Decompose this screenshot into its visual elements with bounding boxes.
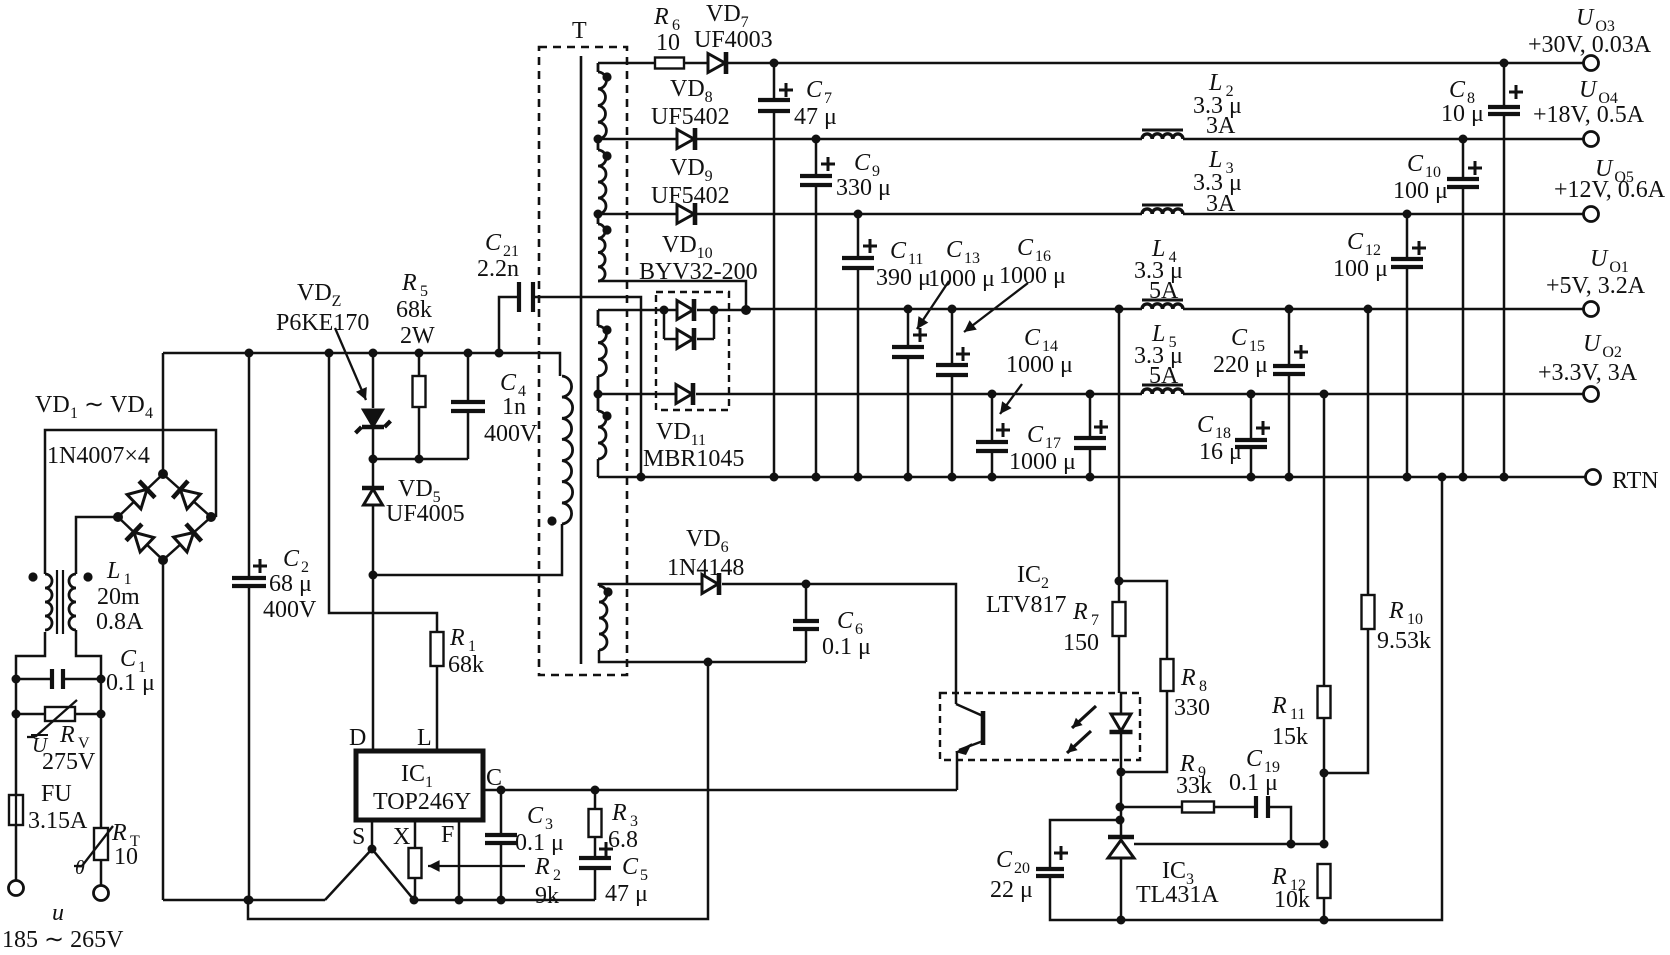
inductor L2 3.3u 3A: [1142, 134, 1183, 139]
capacitor C16 1000u: [951, 309, 954, 477]
svg-text:C: C: [890, 238, 907, 264]
terminal UO4 +18V: [1584, 132, 1599, 147]
svg-text:UF5402: UF5402: [651, 104, 730, 130]
svg-text:θ: θ: [75, 857, 85, 879]
svg-text:5A: 5A: [1149, 363, 1179, 389]
resistor R2 9k on X pin: [409, 848, 422, 878]
svg-text:390 μ: 390 μ: [876, 265, 931, 291]
wire: +12V rail to L3: [697, 213, 1142, 216]
svg-text:33k: 33k: [1176, 773, 1212, 799]
svg-text:C: C: [485, 230, 502, 256]
wire: +30V rail: [728, 62, 1583, 65]
svg-text:330: 330: [1174, 695, 1210, 721]
wire: 18V row from tap: [598, 138, 677, 141]
svg-text:IC: IC: [1017, 562, 1041, 588]
svg-text:20: 20: [1014, 860, 1030, 877]
wire: AC live vertical from left input terminal up to C1/RV node: [16, 632, 45, 881]
node C13 top: [904, 305, 913, 314]
svg-text:10: 10: [114, 844, 138, 870]
svg-text:1000 μ: 1000 μ: [928, 266, 995, 292]
inductor L1 right winding: [69, 574, 76, 630]
svg-text:20m: 20m: [97, 584, 140, 610]
wire: clamp node horizontal: [373, 458, 468, 461]
svg-text:+30V, 0.03A: +30V, 0.03A: [1528, 32, 1652, 58]
svg-text:5A: 5A: [1149, 278, 1179, 304]
wire: RTN rail: [598, 476, 1585, 479]
svg-text:VD: VD: [398, 476, 433, 502]
svg-text:∼: ∼: [84, 392, 104, 418]
wire: +12V rail after L3: [1183, 213, 1583, 216]
primary polarity dot: [547, 516, 556, 525]
svg-text:1000 μ: 1000 μ: [1009, 449, 1076, 475]
node C20 branch: [1116, 816, 1125, 825]
node C7 top: [770, 59, 779, 68]
secondary polarity dot C: [602, 225, 611, 234]
node C14 bottom: [988, 473, 997, 482]
arrow: VDZ label to symbol: [335, 328, 366, 400]
svg-text:0.1 μ: 0.1 μ: [106, 670, 155, 696]
svg-text:0.1 μ: 0.1 μ: [822, 634, 871, 660]
svg-text:BYV32-200: BYV32-200: [639, 259, 758, 285]
svg-text:220 μ: 220 μ: [1213, 352, 1268, 378]
node C17 top: [1086, 390, 1095, 399]
diode VD2 (bridge upper-right): [180, 490, 200, 510]
terminal UO1 +5V: [1584, 302, 1599, 317]
svg-text:C: C: [1231, 325, 1248, 351]
svg-text:1n: 1n: [502, 394, 526, 420]
svg-text:MBR1045: MBR1045: [643, 446, 744, 472]
svg-text:UF5402: UF5402: [651, 183, 730, 209]
svg-text:1000 μ: 1000 μ: [999, 263, 1066, 289]
inductor L5 3.3u 5A: [1142, 389, 1183, 394]
diode VD3 (bridge lower-left): [134, 532, 154, 552]
svg-text:9.53k: 9.53k: [1377, 628, 1431, 654]
arrow: C14 label to cap: [1000, 384, 1022, 414]
node C4 top on HV rail: [464, 349, 473, 358]
svg-text:68 μ: 68 μ: [269, 571, 312, 597]
node C9 top: [812, 135, 821, 144]
svg-text:2.2n: 2.2n: [477, 256, 519, 282]
svg-text:0.8A: 0.8A: [96, 609, 144, 635]
svg-text:C: C: [1024, 325, 1041, 351]
L1 polarity dot left: [28, 572, 37, 581]
svg-text:U: U: [1579, 77, 1598, 103]
bridge node bottom: [158, 555, 168, 565]
wire: +18V rail to L2: [697, 138, 1142, 141]
svg-text:6.8: 6.8: [608, 827, 638, 853]
svg-text:R: R: [1180, 665, 1196, 691]
node VD10 anode: [660, 306, 669, 315]
wire: VD6 to C6 and opto collector: [722, 584, 956, 704]
svg-text:2: 2: [553, 867, 561, 884]
svg-text:IC: IC: [1162, 858, 1186, 884]
node bias return: [704, 658, 713, 667]
fuse FU 3.15A: [15, 795, 17, 825]
svg-text:Z: Z: [332, 293, 342, 310]
svg-text:10 μ: 10 μ: [1441, 101, 1484, 127]
svg-text:O2: O2: [1602, 344, 1622, 361]
wire: winding C bottom rides on +5V rail: [598, 281, 746, 309]
capacitor C6 0.1u: [805, 584, 808, 662]
svg-text:IC: IC: [401, 761, 425, 787]
wire: opto emitter down to C pin line: [956, 751, 959, 790]
svg-text:15k: 15k: [1272, 724, 1308, 750]
node C13 bottom: [904, 473, 913, 482]
svg-text:3.15A: 3.15A: [28, 808, 88, 834]
resistor R11 15k: [1323, 394, 1326, 686]
wire: aux return rail: [248, 662, 708, 919]
node R10 top on +5V rail: [1364, 305, 1373, 314]
secondary winding B: [597, 139, 600, 150]
node R12 bottom: [1320, 916, 1329, 925]
L1 polarity dot right: [83, 572, 92, 581]
svg-text:F: F: [441, 822, 454, 848]
svg-text:0.1 μ: 0.1 μ: [1229, 770, 1278, 796]
svg-text:VD: VD: [686, 526, 721, 552]
node F on ground rail: [455, 896, 464, 905]
svg-text:FU: FU: [41, 781, 72, 807]
wire: C pin line to optocoupler emitter: [483, 789, 957, 792]
node tap D-E (3.3V tap): [594, 390, 603, 399]
wire: F pin down to ground rail: [458, 820, 461, 900]
node C15 top: [1285, 305, 1294, 314]
diode VD10b BYV32-200: [664, 338, 677, 341]
wire: +3.3V rail to L5: [696, 393, 1142, 396]
arrow: C13 label to cap: [917, 281, 949, 329]
svg-text:100 μ: 100 μ: [1333, 256, 1388, 282]
wire: +18V rail after L2: [1183, 138, 1583, 141]
wire: TL431 ref line: [1134, 843, 1324, 846]
svg-text:68k: 68k: [448, 652, 484, 678]
wire: +5V rail to L4: [746, 308, 1142, 311]
opto light arrows: [1072, 706, 1096, 728]
svg-text:UF4005: UF4005: [386, 501, 465, 527]
node C1 right: [97, 675, 106, 684]
svg-text:C: C: [806, 77, 823, 103]
svg-text:47 μ: 47 μ: [605, 881, 648, 907]
wire: S pin to source node: [371, 820, 374, 849]
node TL431 anode: [1117, 916, 1126, 925]
svg-text:S: S: [352, 824, 365, 850]
thermistor RT 10: [94, 828, 108, 860]
resistor R10 9.53k: [1367, 309, 1370, 595]
svg-text:TL431A: TL431A: [1136, 882, 1219, 908]
wire: bridge + output up to HV rail: [162, 353, 165, 474]
svg-text:U: U: [1590, 246, 1609, 272]
transformer T dashed box: [539, 47, 627, 675]
wire: +5V rail after L4: [1183, 308, 1583, 311]
wire: L1 left winding top up and over to bridge right vertex (VD box outline): [45, 430, 216, 574]
svg-text:X: X: [393, 824, 410, 850]
wire: LED cathode down to TL431: [1120, 772, 1123, 837]
svg-text:7: 7: [1091, 612, 1099, 629]
IC3 TL431A symbol: [1108, 835, 1134, 840]
node tap B-C (12V tap): [594, 210, 603, 219]
node R7 feed on +5V rail: [1115, 305, 1124, 314]
rectifier dashed box VD10/VD11: [656, 292, 729, 410]
resistor R3 6.8: [594, 790, 597, 809]
wire: source tent right diagonal: [372, 849, 414, 900]
wire: R6 to VD7: [684, 62, 708, 65]
svg-text:+18V, 0.5A: +18V, 0.5A: [1533, 102, 1645, 128]
svg-text:400V: 400V: [263, 597, 317, 623]
terminal UO2 +3.3V: [1584, 387, 1599, 402]
svg-text:C: C: [1347, 229, 1364, 255]
capacitor C1 0.1u (X cap): [16, 678, 52, 681]
svg-text:C: C: [996, 847, 1013, 873]
svg-text:D: D: [349, 725, 366, 751]
secondary polarity dot E: [602, 411, 611, 420]
wire: +30V row from winding A: [598, 62, 655, 65]
arrow: R2 label to body: [428, 865, 525, 867]
wire: bias winding top line: [599, 584, 702, 586]
node C11 bottom: [854, 473, 863, 482]
node tap A-B (18V tap): [594, 135, 603, 144]
capacitor C15 220u: [1288, 309, 1291, 477]
secondary winding A (30V): [597, 63, 600, 72]
wire: primary ground rail (left section): [163, 899, 325, 902]
terminal RTN: [1586, 470, 1601, 485]
node C10 top: [1459, 135, 1468, 144]
svg-text:R: R: [111, 820, 127, 846]
wire: VDZ branch from HV rail: [372, 353, 375, 408]
node C3 top: [497, 786, 506, 795]
capacitor C20 22u: [1050, 820, 1120, 869]
node C2 top on HV rail: [245, 349, 254, 358]
node R11 top on +3.3V rail: [1320, 390, 1329, 399]
svg-text:VD: VD: [297, 280, 332, 306]
svg-text:C: C: [1246, 746, 1263, 772]
svg-text:100 μ: 100 μ: [1393, 178, 1448, 204]
node LED cathode / R8 return: [1117, 768, 1126, 777]
bias winding F: [598, 584, 601, 586]
svg-text:+5V, 3.2A: +5V, 3.2A: [1546, 273, 1646, 299]
inductor L3 3.3u 3A: [1142, 209, 1183, 214]
node S apex: [368, 845, 377, 854]
capacitor C10 100u: [1462, 139, 1465, 477]
svg-text:C: C: [283, 546, 300, 572]
svg-text:8: 8: [1199, 678, 1207, 695]
terminal UO3 +30V: [1584, 56, 1599, 71]
resistor R5 68k 2W: [418, 353, 421, 459]
wire: 12V row from tap: [598, 213, 677, 216]
wire: HV+ rail to transformer primary top: [163, 353, 560, 376]
wire: X pin down: [414, 820, 417, 848]
capacitor C21 2.2n: [499, 297, 519, 353]
capacitor C8 10u: [1503, 63, 1506, 477]
diode VD4 (bridge lower-right): [174, 533, 194, 553]
svg-text:T: T: [572, 18, 587, 44]
inductor L4 3.3u 5A: [1142, 304, 1183, 309]
wire: R1 to L pin: [436, 666, 439, 751]
resistor R7 150: [1118, 581, 1121, 602]
svg-text:R: R: [401, 270, 417, 296]
svg-text:3A: 3A: [1206, 191, 1236, 217]
svg-text:C: C: [1449, 77, 1466, 103]
terminal UO5 +12V: [1584, 207, 1599, 222]
opto transistor collector lead: [956, 704, 983, 716]
resistor R8 330: [1119, 581, 1167, 659]
diode VD11 MBR1045: [598, 393, 676, 396]
secondary polarity dot D: [602, 325, 611, 334]
node C7 bottom: [770, 473, 779, 482]
wire: HV rail down-jog to R1: [329, 353, 437, 632]
AC input terminal right (u neutral): [94, 886, 109, 901]
transformer core line: [580, 56, 583, 664]
node R10/R11 junction: [1320, 769, 1329, 778]
capacitor C7 47u: [773, 63, 776, 477]
node C8 bottom: [1500, 473, 1509, 482]
diode VD1 (bridge upper-left): [127, 489, 147, 509]
secondary winding D (5V): [597, 310, 600, 326]
wire: +5V feed down to R7 (crosses RTN): [1118, 309, 1121, 581]
zener VDZ P6KE170: [364, 410, 383, 426]
wire: bridge - output down to primary ground rail: [162, 560, 165, 900]
svg-text:C: C: [1017, 235, 1034, 261]
secondary winding C: [597, 214, 600, 224]
svg-text:C: C: [527, 803, 544, 829]
resistor R12 10k: [1318, 864, 1331, 898]
capacitor C5 47u: [594, 837, 597, 900]
svg-text:1000 μ: 1000 μ: [1006, 352, 1073, 378]
node R3 top: [591, 786, 600, 795]
svg-text:C: C: [1027, 422, 1044, 448]
capacitor C9 330u: [815, 139, 818, 477]
capacitor C2 68u 400V: [248, 353, 251, 900]
bias polarity dot: [603, 587, 612, 596]
optocoupler IC2 dashed box: [940, 693, 1140, 760]
capacitor C13 1000u: [907, 309, 910, 477]
svg-text:R: R: [534, 854, 550, 880]
svg-text:C: C: [1197, 412, 1214, 438]
resistor R9 33k: [1120, 806, 1182, 809]
node drain junction: [369, 571, 378, 580]
wire: +3.3V rail after L5: [1183, 393, 1583, 396]
node R8 branch: [1115, 577, 1124, 586]
svg-text:330 μ: 330 μ: [836, 175, 891, 201]
svg-text:RTN: RTN: [1612, 468, 1659, 494]
node C6 top: [802, 580, 811, 589]
svg-text:2W: 2W: [400, 323, 435, 349]
wire: primary ground rail (right section): [414, 899, 595, 902]
svg-text:47 μ: 47 μ: [794, 104, 837, 130]
svg-text:1N4007×4: 1N4007×4: [47, 443, 150, 469]
svg-text:C: C: [120, 646, 137, 672]
svg-text:VD: VD: [670, 155, 705, 181]
svg-text:U: U: [1583, 331, 1602, 357]
wire: source tent left diagonal: [325, 849, 372, 900]
svg-text:C: C: [1407, 151, 1424, 177]
inductor L1 left winding: [45, 574, 52, 630]
svg-text:L: L: [417, 725, 432, 751]
node clamp R5: [415, 455, 424, 464]
svg-text:2: 2: [1041, 575, 1049, 592]
svg-text:R: R: [449, 625, 465, 651]
diode VD5 UF4005: [372, 459, 375, 486]
node C12 top: [1403, 210, 1412, 219]
node R9 branch: [1116, 803, 1125, 812]
svg-text:VD: VD: [656, 419, 691, 445]
L1 core lines: [56, 570, 58, 634]
node RV right: [97, 710, 106, 719]
node C3 bottom: [497, 896, 506, 905]
svg-text:1: 1: [70, 405, 78, 422]
svg-text:6: 6: [721, 539, 729, 556]
diode VD10a BYV32-200: [664, 309, 677, 312]
node C2 bottom on ground rail: [245, 896, 254, 905]
opto transistor emitter lead: [959, 741, 983, 750]
svg-text:11: 11: [1290, 706, 1305, 723]
node C19 to ref: [1287, 840, 1296, 849]
svg-text:LTV817: LTV817: [986, 592, 1066, 618]
svg-text:+3.3V, 3A: +3.3V, 3A: [1538, 360, 1638, 386]
svg-text:UF4003: UF4003: [694, 27, 773, 53]
svg-text:R: R: [1271, 693, 1287, 719]
node C11 top: [854, 210, 863, 219]
bridge node right: [206, 512, 216, 522]
node VD10 cathode: [710, 306, 719, 315]
node C16 bottom: [948, 473, 957, 482]
node C12 bottom: [1403, 473, 1412, 482]
wire: bridge rhombus: [118, 474, 211, 560]
svg-text:VD: VD: [662, 232, 697, 258]
transformer primary winding: [562, 376, 573, 524]
svg-text:U: U: [1576, 5, 1595, 31]
svg-text:VD: VD: [110, 392, 145, 418]
svg-text:0.1 μ: 0.1 μ: [515, 830, 564, 856]
wire: VDZ cathode to clamp node: [372, 428, 375, 459]
svg-text:275V: 275V: [42, 749, 96, 775]
svg-text:R: R: [1388, 598, 1404, 624]
wire: VD10 parallel loop: [663, 310, 666, 339]
varistor RV 275V: [16, 713, 45, 716]
secondary winding E (3.3V): [598, 411, 606, 459]
svg-text:VD: VD: [670, 76, 705, 102]
wire: R2 to ground rail: [414, 878, 417, 900]
capacitor C17 1000u: [1089, 394, 1092, 477]
wire: TL431 anode rail: [1120, 477, 1442, 920]
node VDZ top on HV rail: [369, 349, 378, 358]
svg-text:13: 13: [964, 250, 980, 267]
svg-text:P6KE170: P6KE170: [276, 310, 369, 336]
svg-text:22 μ: 22 μ: [990, 877, 1033, 903]
AC input terminal left (u live): [9, 881, 24, 896]
svg-text:VD: VD: [35, 392, 70, 418]
svg-text:R: R: [59, 722, 75, 748]
wire: bias winding bottom line: [599, 650, 806, 662]
svg-text:10: 10: [1407, 611, 1423, 628]
node tent right on ground rail: [410, 896, 419, 905]
svg-text:150: 150: [1063, 630, 1099, 656]
node R1 branch on HV rail: [325, 349, 334, 358]
node C9 bottom: [812, 473, 821, 482]
svg-text:L: L: [106, 558, 120, 584]
diode VD6 1N4148: [702, 575, 718, 594]
diode VD8 UF5402: [677, 130, 694, 149]
capacitor C19 0.1u: [1256, 796, 1268, 818]
node C17 bottom: [1086, 473, 1095, 482]
secondary polarity dot A: [602, 72, 611, 81]
node C10 bottom: [1459, 473, 1468, 482]
svg-text:10: 10: [656, 30, 680, 56]
node R5 top on HV rail: [415, 349, 424, 358]
svg-text:3A: 3A: [1206, 113, 1236, 139]
svg-text:+12V, 0.6A: +12V, 0.6A: [1554, 177, 1666, 203]
node C15 bottom: [1285, 473, 1294, 482]
capacitor C14 1000u: [991, 394, 994, 477]
node C18 bottom: [1247, 473, 1256, 482]
node C1 left: [12, 675, 21, 684]
